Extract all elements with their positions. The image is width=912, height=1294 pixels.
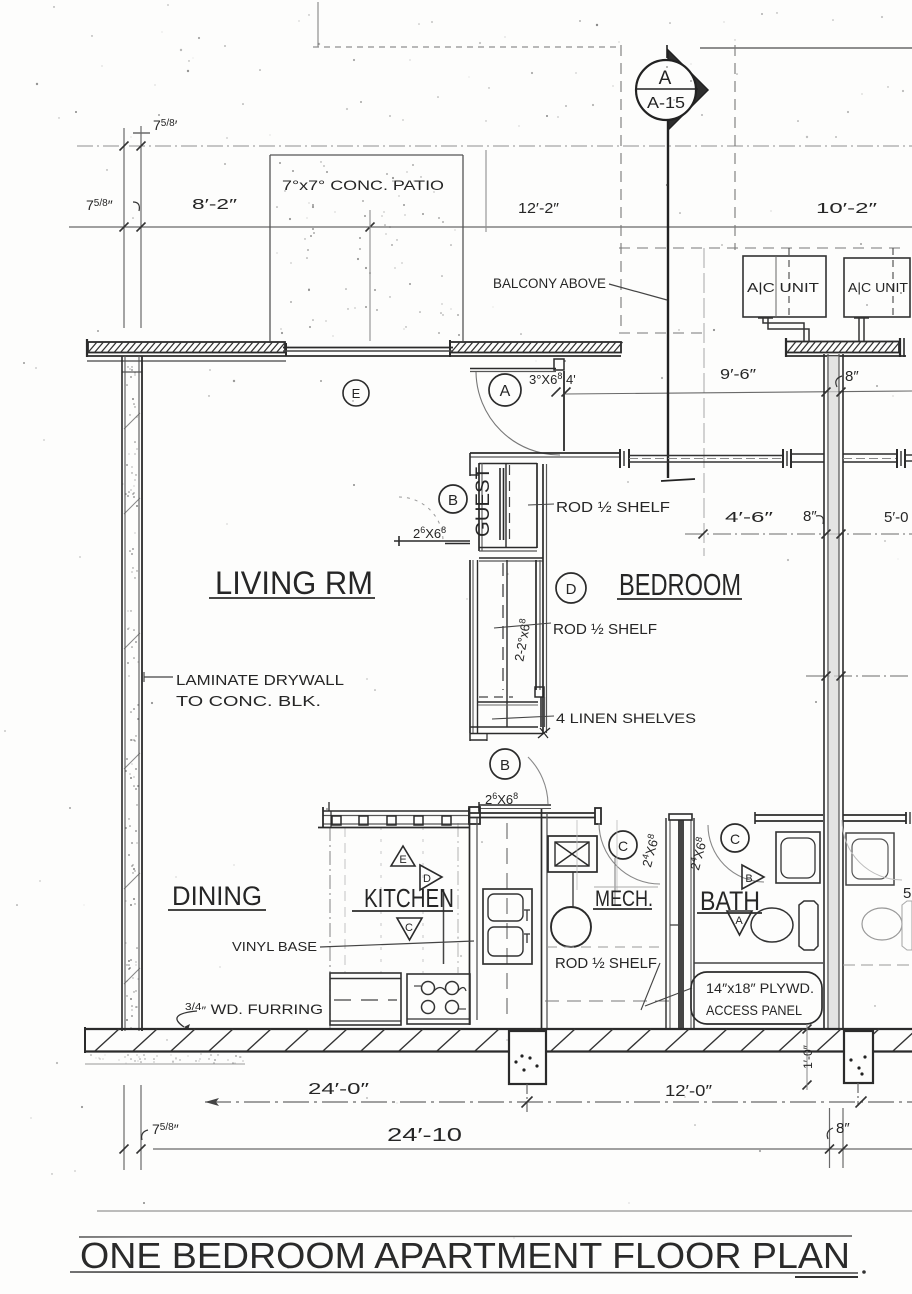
door B tag circle (439, 485, 467, 513)
door C mech tag circle (609, 831, 637, 859)
svg-text:5′: 5′ (903, 885, 912, 902)
mech shelf faint line (594, 886, 658, 888)
interior wall face line right y356 (786, 355, 906, 357)
exterior wall top-left hatched segment (88, 342, 285, 353)
kitchen base cabinet (330, 973, 401, 1025)
svg-text:KITCHEN: KITCHEN (364, 883, 454, 913)
svg-text:A: A (659, 68, 672, 89)
label DINING underline (168, 909, 266, 911)
neighbor toilet faint (862, 908, 902, 940)
svg-text:TO CONC. BLK.: TO CONC. BLK. (176, 694, 321, 710)
sliding glass door end ticks (285, 343, 287, 356)
label KITCHEN underline (352, 910, 453, 912)
partition shelf tick (670, 924, 682, 926)
dim line y1149 (153, 1148, 912, 1150)
dim ticks y676 (822, 672, 831, 681)
left wall stipple texture (124, 366, 140, 1028)
kitchen sink bowl 1 (488, 894, 523, 921)
pier dim 1-0 ticks (803, 1025, 812, 1034)
rod shelf leader 1 (528, 504, 554, 505)
svg-text:BEDROOM: BEDROOM (619, 567, 741, 602)
neighbor window jamb (896, 449, 898, 468)
bath lavatory basin (781, 838, 815, 878)
svg-text:4′-6″: 4′-6″ (725, 509, 774, 526)
svg-text:MECH.: MECH. (595, 886, 653, 911)
svg-text:BALCONY ABOVE: BALCONY ABOVE (493, 276, 606, 291)
tick slash x141 y146 (137, 142, 146, 151)
kitchen base cabinet counter line (330, 978, 401, 980)
pier centerline right (857, 1083, 859, 1106)
door A dim ticks (552, 388, 561, 397)
dim line y394 (565, 391, 912, 394)
svg-text:DINING: DINING (172, 881, 262, 911)
door B bedroom tag circle (490, 749, 520, 779)
bedroom door B header (479, 804, 551, 806)
svg-text:A|C UNIT: A|C UNIT (747, 280, 819, 295)
dim line y1211 (97, 1210, 912, 1212)
section marker top stub (666, 45, 668, 58)
door A header lines (470, 368, 556, 370)
bedroom north wall (470, 452, 620, 454)
guest closet door B hinge tick (398, 536, 400, 546)
closet south step (469, 733, 471, 741)
exterior wall top-right hatched segment (786, 342, 899, 353)
tick slash x124 y227 (120, 223, 129, 232)
kitchen counter edge line (443, 889, 445, 964)
wall cap x786 (785, 338, 787, 357)
pier footing left (509, 1031, 546, 1084)
mech washer box inner with X (555, 842, 589, 866)
svg-text:A: A (735, 915, 743, 927)
pier footing right (844, 1031, 873, 1083)
guest closet door B header (394, 540, 470, 542)
section marker divider line (637, 88, 698, 90)
bath north wall (755, 814, 823, 816)
label MECH underline (593, 908, 652, 910)
left wall top cap line (122, 371, 142, 373)
grid line top border left (313, 46, 620, 48)
door D tag circle (556, 573, 586, 603)
grid line top border right (700, 47, 912, 49)
bedroom closet rod dashed line (502, 563, 504, 690)
title end underline (795, 1276, 858, 1278)
extension line x704 (703, 248, 705, 556)
kitchen base cabinet drawer dashes (334, 999, 397, 1001)
mech washer box outer (548, 836, 597, 872)
extension line x486 (485, 150, 487, 232)
closet south wall lines (470, 726, 538, 728)
door A leaf (563, 371, 565, 451)
mech door C leaf line (614, 858, 616, 905)
extension line x124 top (123, 128, 125, 328)
partition heavy core (678, 816, 684, 1029)
equipment triangle C (397, 918, 422, 940)
partition east lines (690, 818, 692, 1029)
access panel leader (645, 988, 692, 1006)
svg-text:A-15: A-15 (647, 95, 685, 112)
kitchen cabinet left cap (322, 807, 324, 828)
svg-text:LIVING RM: LIVING RM (215, 565, 373, 601)
kitchen range outline (407, 974, 470, 1024)
bedroom closet door jamb block (535, 687, 544, 697)
balcony leader line (609, 284, 667, 300)
bath lavatory outer (776, 832, 820, 883)
tick x141 y133 (133, 132, 150, 134)
neighbor bath door faint arc (842, 820, 902, 880)
svg-text:1′-0″: 1′-0″ (801, 1044, 815, 1069)
footing stipple strip (90, 1053, 243, 1063)
wd furring leader arrow (177, 1011, 197, 1027)
bath toilet tank (799, 901, 818, 950)
bottom wall bottom line (85, 1050, 912, 1052)
bath equipment triangle B (742, 865, 764, 889)
svg-text:GUEST: GUEST (473, 467, 494, 537)
mech west wall (541, 809, 543, 1029)
hall south wall band (469, 812, 600, 814)
svg-text:ROD ½ SHELF: ROD ½ SHELF (553, 621, 657, 638)
kitchen upper cabinet rails (323, 810, 470, 812)
neighbor floor dashed line (843, 964, 912, 966)
dim tick y1102 left (522, 1097, 533, 1108)
wall cap x450 (449, 340, 451, 357)
svg-text:A: A (500, 383, 511, 400)
neighbor lavatory basin (852, 839, 888, 879)
bath toilet bowl (751, 908, 793, 942)
bedroom closet bifold door lines (535, 560, 537, 690)
A/C unit 2 duct to wall (858, 317, 860, 341)
guest closet east inner line (536, 463, 538, 548)
partition top cap (669, 814, 692, 820)
equipment triangle D (420, 865, 442, 890)
guest closet shelf line (505, 463, 507, 548)
rod shelf leader 3 (641, 963, 660, 1010)
pier dim extension line (806, 1024, 808, 1090)
section cut line (667, 120, 669, 478)
guest closet door B dashed swing arc (399, 497, 443, 541)
svg-text:24′-0″: 24′-0″ (308, 1081, 370, 1098)
dim ticks y534 (699, 530, 708, 539)
access panel box (691, 972, 822, 1024)
svg-text:LAMINATE DRYWALL: LAMINATE DRYWALL (176, 673, 344, 689)
kitchen range bottom line (407, 1018, 470, 1020)
patio center line x370 (369, 210, 371, 341)
bottom wall top line (85, 1028, 912, 1030)
kitchen faint line x345 (344, 827, 346, 973)
svg-text:12′-0″: 12′-0″ (665, 1083, 712, 1100)
bottom wall left cap (84, 1027, 86, 1053)
kitchen corner box (469, 807, 480, 824)
wall piece window to party wall (791, 453, 824, 455)
wall cap x900 (899, 338, 901, 357)
dim line y1102 with arrow (205, 1101, 912, 1103)
section cut line end crossbar (661, 479, 695, 481)
kitchen base cabinet bottom line (330, 1020, 401, 1022)
closet east wall (542, 464, 544, 733)
kitchen range center marks (434, 988, 446, 992)
svg-text:8′-2″: 8′-2″ (192, 196, 238, 213)
svg-text:8″: 8″ (803, 508, 817, 525)
svg-text:E: E (399, 854, 406, 866)
laminate leader line (144, 676, 173, 678)
balcony dashed bottom y333 (619, 332, 706, 334)
linen shelves leader (492, 716, 554, 719)
A/C unit 1 duct to wall (763, 317, 804, 341)
A/C unit 1 box (743, 256, 826, 317)
patio outline (269, 155, 271, 341)
bottom wall hatching (95, 1029, 119, 1051)
svg-text:B: B (500, 757, 510, 774)
balcony dashed right x735 (734, 45, 736, 250)
party wall west lines (823, 354, 825, 1030)
balcony dashed left x621 (620, 45, 622, 333)
extension line x141 top (140, 126, 142, 328)
closet leader rod shelf (494, 623, 551, 628)
mech shelf dashed line 2 (545, 1000, 672, 1002)
closet divider wall (479, 557, 543, 559)
svg-text:B: B (745, 873, 752, 885)
guest closet south lines (479, 547, 537, 549)
neighbor window lines (843, 453, 897, 455)
closet wall end tick (538, 728, 550, 738)
interior furring line y361 (87, 360, 286, 362)
window jamb west (619, 449, 621, 468)
svg-text:24′-10: 24′-10 (387, 1125, 462, 1145)
dim dash-dot line y676 (806, 675, 912, 677)
svg-text:VINYL BASE: VINYL BASE (232, 939, 317, 954)
dim dash-dot line y534 (685, 533, 912, 535)
kitchen east partition (469, 807, 471, 1025)
extension lines party wall bottom (829, 1108, 831, 1168)
svg-text:C: C (730, 831, 740, 847)
window jamb east (782, 449, 784, 468)
title rule top (79, 1236, 852, 1237)
door A swing arc (476, 372, 560, 455)
svg-text:BATH: BATH (700, 886, 760, 916)
bath equipment triangle A (727, 911, 752, 935)
kitchen sink faucet marks (524, 909, 530, 911)
mech door C swing arc (599, 823, 660, 884)
kitchen upper cabinet dividers (332, 816, 341, 825)
svg-text:8″: 8″ (845, 368, 859, 385)
left wall outer lines (121, 356, 123, 1031)
bedroom wall corner step (469, 453, 471, 476)
linen shelf line (478, 701, 538, 703)
bedroom closet shelf line (506, 560, 508, 727)
guest closet west wall (478, 463, 480, 551)
door A tag circle (489, 374, 521, 406)
party wall gray core (827, 356, 839, 1030)
neighbor lavatory outer (846, 833, 894, 885)
svg-text:14″x18″ PLYWD.: 14″x18″ PLYWD. (706, 980, 814, 996)
neighbor bath north wall (843, 814, 906, 816)
label BEDROOM underline (617, 598, 742, 600)
svg-text:5′-0: 5′-0 (884, 509, 909, 526)
party wall east lines (838, 354, 840, 1030)
dim ticks y1149 right (825, 1145, 834, 1154)
svg-text:7°x7° CONC. PATIO: 7°x7° CONC. PATIO (282, 177, 444, 193)
tag circle E (343, 380, 369, 406)
grid dash-dot line y146 (77, 145, 912, 147)
svg-text:B: B (448, 492, 458, 509)
bath door C swing arc (708, 825, 764, 882)
hall wall right cap (595, 808, 601, 824)
extension lines left wall bottom (123, 1085, 125, 1170)
tick slash x124 y146 (120, 142, 129, 151)
svg-text:A|C UNIT: A|C UNIT (848, 280, 908, 295)
label LIVING RM underline (209, 597, 375, 599)
svg-text:12′-2″: 12′-2″ (518, 200, 560, 217)
A/C unit 2 dashed centerline (892, 248, 894, 317)
svg-text:8″: 8″ (836, 1120, 850, 1137)
mech water heater circle (551, 907, 591, 947)
svg-text:C: C (405, 922, 413, 934)
svg-text:D: D (566, 581, 577, 598)
tick slash x141 y227 (137, 223, 146, 232)
vinyl base leader line (320, 941, 474, 947)
bedroom closet west wall (469, 560, 471, 733)
door A stop notch at wall (554, 359, 564, 370)
grid stub vertical x318 (317, 2, 319, 47)
equipment triangle E (391, 846, 415, 866)
kitchen dashed centerline (506, 823, 508, 1020)
section marker A-15 arrow triangle (668, 50, 708, 130)
kitchen faint line x381 (380, 827, 382, 973)
guest closet north inner line (479, 463, 537, 465)
svg-text:C: C (618, 838, 628, 854)
section marker A-15 circle (636, 60, 696, 120)
kitchen sink bowl 2 (488, 927, 523, 956)
patio stipple texture (276, 161, 460, 336)
kitchen faint line x457 (457, 823, 459, 973)
kitchen dash-dot boundary x330 (329, 827, 331, 1028)
svg-text:ONE BEDROOM APARTMENT FLOOR PL: ONE BEDROOM APARTMENT FLOOR PLAN (80, 1235, 850, 1276)
title rule bottom (70, 1272, 858, 1273)
wall end cap left x87 (86, 339, 88, 357)
bedroom window lines (629, 455, 783, 457)
svg-text:E: E (352, 386, 361, 401)
svg-text:10′-2″: 10′-2″ (816, 200, 878, 217)
bath floor line (694, 962, 823, 964)
svg-text:4 LINEN SHELVES: 4 LINEN SHELVES (556, 710, 696, 726)
dim line y227 (69, 226, 912, 228)
linen shelf dashed line (479, 696, 513, 698)
left wall inner lines (138, 356, 140, 1031)
svg-text:3°X68 4': 3°X68 4' (529, 371, 576, 387)
svg-text:9′-6″: 9′-6″ (720, 366, 757, 383)
mech faint grid verticals (576, 820, 578, 890)
guest closet text underline (499, 468, 501, 540)
kitchen sink outline (483, 889, 532, 964)
svg-text:3/4″ WD. FURRING: 3/4″ WD. FURRING (185, 1001, 323, 1017)
exterior wall top-middle hatched segment (450, 342, 621, 353)
A/C unit 2 box (844, 258, 910, 317)
svg-text:ROD ½ SHELF: ROD ½ SHELF (556, 499, 670, 516)
bedroom closet east wall piece (540, 697, 542, 727)
guest closet rod dashed line (509, 465, 511, 545)
hall wall left corner (468, 808, 470, 823)
tick slash x370 y227 (366, 223, 375, 232)
svg-text:ROD ½ SHELF: ROD ½ SHELF (555, 955, 657, 972)
kitchen range burners (422, 982, 435, 995)
partition west lines (665, 818, 667, 1029)
label BATH underline (697, 912, 762, 914)
A/C unit 1 dashed centerline (788, 248, 790, 317)
dim tick y1102 right (856, 1097, 867, 1108)
svg-text:ACCESS PANEL: ACCESS PANEL (706, 1002, 802, 1018)
dim ticks y1149 left (120, 1145, 129, 1154)
balcony dashed outline top y248 (619, 247, 905, 249)
interior wall face line y356 (87, 355, 621, 357)
kitchen faint line x423 (422, 827, 424, 973)
mech shelf dashed line 1 (547, 946, 660, 948)
door C bath tag circle (721, 824, 749, 852)
pier centerline left (526, 1084, 528, 1112)
dim ticks y394 party wall (822, 388, 831, 397)
bedroom door B swing arc (528, 757, 548, 804)
sliding glass door lines (283, 347, 453, 349)
mech water heater vent line (572, 872, 574, 908)
A/C unit 1 divider (775, 256, 777, 317)
